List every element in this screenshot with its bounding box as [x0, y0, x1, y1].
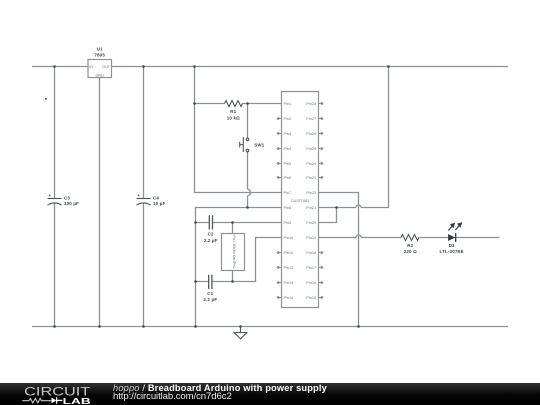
- svg-text:Pin23: Pin23: [306, 176, 316, 180]
- capacitor C3: [48, 199, 62, 206]
- svg-text:IN: IN: [89, 65, 93, 69]
- ground symbol: [234, 327, 247, 339]
- junction bottom rail at ground symbol: [239, 325, 242, 328]
- svg-text:Pin16: Pin16: [306, 281, 316, 285]
- LED D3 triangle: [448, 234, 455, 241]
- junction bottom rail at GND vertical: [194, 325, 197, 328]
- capacitor C2: [209, 215, 212, 229]
- R2 name and value labels: [404, 243, 417, 254]
- svg-text:10 µF: 10 µF: [153, 201, 165, 206]
- R1 name and value labels: [227, 109, 240, 120]
- svg-text:Pin8: Pin8: [284, 206, 292, 210]
- svg-text:7805: 7805: [94, 52, 105, 57]
- C4 name and value labels: [153, 195, 165, 206]
- svg-text:C1: C1: [207, 291, 213, 296]
- svg-text:Pin7: Pin7: [284, 191, 292, 195]
- svg-text:Pin12: Pin12: [284, 266, 294, 270]
- svg-text:GND: GND: [95, 73, 104, 77]
- junction crystal bottom: [231, 280, 234, 283]
- pushbutton SW1: [240, 137, 249, 152]
- junction crystal top: [231, 221, 234, 224]
- junction bottom rail at C3: [53, 325, 56, 328]
- C2 name and value labels: [204, 232, 218, 243]
- svg-text:Pin26: Pin26: [306, 132, 316, 136]
- junction top rail at left vertical: [193, 65, 196, 68]
- crystal rotated text: [232, 235, 236, 268]
- junction bottom rail at U1 GND: [98, 325, 101, 328]
- svg-text:Pin6: Pin6: [284, 176, 292, 180]
- chip left pin labels Pin1-Pin14: [284, 102, 294, 300]
- junction bottom rail at Pin22 drop: [357, 325, 360, 328]
- svg-text:Pin1: Pin1: [284, 102, 292, 106]
- resistor R2: [401, 235, 419, 241]
- svg-text:R2: R2: [407, 243, 413, 248]
- svg-text:Pin11: Pin11: [284, 251, 293, 255]
- junction top rail at Pin21 riser: [387, 65, 390, 68]
- svg-text:R1: R1: [230, 109, 236, 114]
- wire Pin21 to +5V rail with hop: [319, 67, 389, 208]
- svg-text:Pin13: Pin13: [284, 281, 294, 285]
- svg-text:OUT: OUT: [102, 65, 111, 69]
- svg-text:Pin9: Pin9: [284, 221, 292, 225]
- LED D3 cathode bar: [455, 233, 457, 242]
- D3 name and value labels: [440, 243, 464, 254]
- crystal oscillator X1 box: [222, 234, 245, 271]
- svg-text:U1: U1: [97, 47, 103, 52]
- svg-text:Pin14: Pin14: [284, 296, 294, 300]
- wire +5V vertical to Pin7: [195, 67, 282, 193]
- svg-text:D3: D3: [449, 243, 455, 248]
- svg-text:10 kΩ: 10 kΩ: [227, 115, 240, 120]
- unconnected right pin stubs: [319, 103, 323, 299]
- junction bottom rail at C4: [142, 325, 145, 328]
- wire U1 GND pin: [99, 78, 101, 327]
- chip right pin labels Pin28-Pin15: [306, 102, 316, 300]
- svg-text:Pin28: Pin28: [306, 102, 316, 106]
- svg-text:100 µF: 100 µF: [64, 201, 79, 206]
- wire C3 branch: [54, 67, 56, 327]
- CUSTOM1 label: [291, 199, 310, 203]
- svg-text:Pin2: Pin2: [284, 117, 292, 121]
- svg-text:+: +: [48, 193, 51, 198]
- svg-text:C2: C2: [208, 232, 214, 237]
- D3 emission arrows: [448, 223, 461, 231]
- svg-text:Pin5: Pin5: [284, 162, 292, 166]
- svg-text:Pin15: Pin15: [306, 296, 316, 300]
- wire Pin20 to Pin21 net: [319, 208, 337, 223]
- svg-text:Pin3: Pin3: [284, 132, 292, 136]
- junction C2 left: [194, 221, 197, 224]
- footer title text: [113, 384, 327, 393]
- CircuitLab logo: [0, 383, 110, 405]
- svg-text:Pin1 16MHz Osc/Pin2: Pin1 16MHz Osc/Pin2: [232, 235, 236, 268]
- U1 pin names IN OUT GND: [89, 65, 110, 78]
- unconnected left pin stubs: [277, 118, 281, 299]
- wire crystal bottom pin: [232, 271, 234, 282]
- resistor R1: [225, 101, 243, 107]
- junction top rail at C3: [53, 65, 56, 68]
- capacitor C4: [137, 199, 151, 206]
- wire crystal top pin: [232, 223, 234, 234]
- wire C2 to Pin9: [196, 222, 282, 224]
- wire C4 branch: [143, 67, 145, 327]
- svg-text:CUSTOM1: CUSTOM1: [291, 199, 310, 203]
- svg-text:C3: C3: [64, 195, 70, 200]
- svg-text:Pin22: Pin22: [306, 191, 316, 195]
- wire +5V top rail: [32, 66, 508, 68]
- junction R1 to SW1: [246, 102, 249, 105]
- junction SW1 to Pin8 wire: [246, 206, 249, 209]
- wire Pin8 to GND vertical: [196, 208, 282, 327]
- svg-text:220 Ω: 220 Ω: [404, 249, 417, 254]
- junction Pin20 riser: [335, 206, 338, 209]
- C3 plus sign: [48, 193, 51, 198]
- svg-text:Pin10: Pin10: [284, 236, 294, 240]
- svg-text:Pin27: Pin27: [306, 117, 316, 121]
- logo resistor squiggle: [22, 399, 51, 403]
- C1 name and value labels: [203, 291, 217, 302]
- svg-text:Pin21: Pin21: [306, 206, 316, 210]
- svg-text:Pin24: Pin24: [306, 162, 316, 166]
- stray dot node: [45, 98, 47, 100]
- junction C1 left: [194, 280, 197, 283]
- svg-text:Pin25: Pin25: [306, 147, 316, 151]
- svg-text:SW1: SW1: [254, 143, 265, 148]
- C4 plus sign: [137, 193, 140, 198]
- svg-text:2.2 µF: 2.2 µF: [204, 238, 218, 243]
- svg-text:Pin19: Pin19: [306, 236, 316, 240]
- SW1 label: [254, 143, 265, 148]
- svg-text:LTL-307EE: LTL-307EE: [440, 249, 464, 254]
- C3 name and value labels: [64, 195, 79, 206]
- junction top rail at C4: [142, 65, 145, 68]
- U1 labels: [94, 47, 105, 58]
- svg-text:C4: C4: [153, 195, 159, 200]
- wire GND bottom rail: [32, 326, 508, 328]
- capacitor C1: [209, 275, 212, 289]
- junction R1 branch: [193, 102, 196, 105]
- wire C1 to Pin10: [196, 238, 282, 282]
- svg-text:Pin17: Pin17: [306, 266, 316, 270]
- svg-text:2.2 pF: 2.2 pF: [203, 297, 217, 302]
- logo diode: [52, 398, 57, 404]
- svg-text:Pin18: Pin18: [306, 251, 316, 255]
- svg-text:Pin4: Pin4: [284, 147, 292, 151]
- footer url text: [113, 392, 232, 402]
- voltage regulator U1 box: [88, 60, 112, 78]
- svg-text:LAB: LAB: [63, 396, 91, 405]
- svg-text:Pin20: Pin20: [306, 221, 316, 225]
- IC CUSTOM1 box: [282, 92, 319, 308]
- footer bar: [0, 383, 540, 405]
- wire Pin19 to R2 and LED with hop: [319, 235, 500, 238]
- wire R1 to Pin1: [195, 103, 282, 105]
- wire Pin22 to GND rail: [319, 193, 359, 327]
- wire SW1 vertical with hop over Pin7 wire: [248, 104, 251, 208]
- svg-text:+: +: [137, 193, 140, 198]
